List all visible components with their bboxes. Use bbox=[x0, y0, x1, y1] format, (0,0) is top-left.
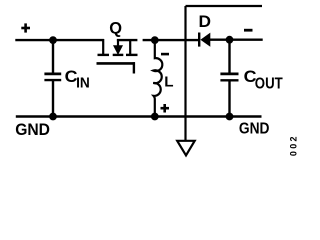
label + (inductor bottom) bbox=[161, 104, 170, 113]
wire CIN bottom lead bbox=[52, 81, 54, 117]
node switch junction bbox=[151, 36, 159, 44]
capacitor C1 CIN bbox=[44, 74, 61, 80]
wire COUT bottom lead bbox=[228, 81, 230, 117]
wire CIN top lead bbox=[52, 40, 54, 73]
label - (output terminal) bbox=[244, 29, 253, 32]
svg-text:Q: Q bbox=[109, 18, 122, 37]
capacitor C2 COUT bbox=[220, 74, 238, 80]
inductor L1 bbox=[153, 40, 162, 116]
wire input top rail bbox=[15, 39, 104, 41]
node inductor ground junction bbox=[151, 113, 159, 121]
svg-text:GND: GND bbox=[239, 121, 270, 138]
label + (input terminal) bbox=[21, 23, 30, 32]
wire top horizontal line bbox=[186, 5, 263, 7]
wire vertical line to ground (V1) bbox=[184, 6, 186, 141]
svg-text:002: 002 bbox=[288, 134, 298, 156]
svg-text:OUT: OUT bbox=[255, 75, 283, 92]
svg-text:D: D bbox=[199, 12, 212, 31]
wire COUT top lead bbox=[228, 40, 230, 73]
node output junction bbox=[226, 36, 234, 44]
ground symbol bbox=[177, 141, 195, 156]
svg-text:IN: IN bbox=[76, 74, 90, 91]
transistor Q1 (N-channel MOSFET) bbox=[97, 39, 138, 74]
label - (inductor top) bbox=[161, 53, 169, 56]
transistor Q1 body arrow bbox=[113, 45, 123, 55]
svg-text:GND: GND bbox=[15, 120, 50, 139]
wire bottom ground rail bbox=[16, 115, 262, 118]
node CIN ground junction bbox=[49, 113, 57, 121]
wire diode to output bbox=[210, 39, 263, 41]
svg-text:L: L bbox=[164, 74, 173, 91]
node input junction bbox=[49, 36, 57, 44]
diode D1 bbox=[198, 33, 200, 47]
wire switch node (Q source to diode) bbox=[143, 39, 199, 41]
node COUT ground junction bbox=[226, 113, 234, 121]
